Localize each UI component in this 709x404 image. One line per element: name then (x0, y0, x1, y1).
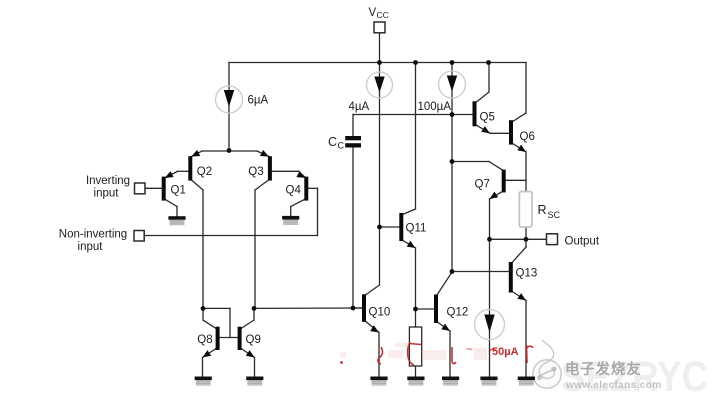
svg-text:SC: SC (548, 210, 561, 220)
svg-text:Q1: Q1 (171, 184, 186, 196)
svg-text:Output: Output (565, 236, 600, 248)
svg-text:input: input (94, 188, 120, 200)
svg-text:Q10: Q10 (369, 306, 391, 318)
svg-text:Q5: Q5 (480, 112, 495, 124)
svg-text:Q8: Q8 (197, 334, 212, 346)
svg-text:C: C (328, 135, 337, 149)
svg-text:100µA: 100µA (418, 101, 452, 113)
svg-text:CC: CC (377, 10, 389, 20)
svg-text:50µA: 50µA (492, 346, 519, 358)
svg-text:Q7: Q7 (475, 179, 490, 191)
svg-text:Non-inverting: Non-inverting (59, 229, 127, 241)
svg-text:Inverting: Inverting (86, 175, 130, 187)
svg-text:C: C (338, 141, 345, 151)
svg-text:6µA: 6µA (248, 95, 269, 107)
svg-text:Q3: Q3 (248, 166, 263, 178)
svg-text:Q12: Q12 (447, 306, 469, 318)
svg-text:www.elecfans.com: www.elecfans.com (565, 380, 662, 391)
svg-text:Q13: Q13 (516, 267, 538, 279)
svg-text:V: V (369, 7, 377, 19)
svg-text:电子发烧友: 电子发烧友 (565, 360, 642, 378)
svg-text:Q9: Q9 (246, 334, 261, 346)
svg-text:Q2: Q2 (197, 166, 212, 178)
svg-text:4µA: 4µA (349, 101, 370, 113)
svg-text:Q4: Q4 (286, 184, 302, 196)
svg-text:Q11: Q11 (406, 222, 427, 234)
svg-text:input: input (78, 241, 104, 253)
svg-text:Q6: Q6 (520, 131, 535, 143)
svg-text:R: R (538, 203, 547, 217)
